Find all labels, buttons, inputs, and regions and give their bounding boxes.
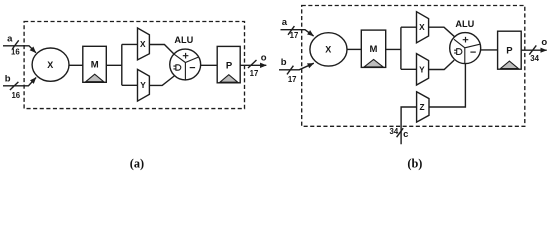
wire X to M (a) xyxy=(69,64,83,66)
pipeline register P (b) xyxy=(498,31,522,69)
ALU circle (a) xyxy=(170,49,201,80)
wire M to mux split (a) xyxy=(106,44,137,85)
pipeline register M (b) xyxy=(361,30,385,67)
svg-text:P: P xyxy=(506,46,513,57)
wire mux X to ALU (a) xyxy=(149,45,174,55)
pipeline register M (a) xyxy=(83,46,107,82)
input b bus-width slash xyxy=(10,82,19,90)
mux Y (b) xyxy=(417,54,429,85)
svg-text:Z: Z xyxy=(419,102,424,112)
ALU plus sign (a) xyxy=(183,53,189,59)
mux Y (a) xyxy=(138,69,150,101)
wire X to M (b) xyxy=(347,48,361,50)
svg-text:(b): (b) xyxy=(407,157,422,171)
multiplier X (b) xyxy=(310,33,347,66)
svg-text:16: 16 xyxy=(11,47,20,56)
ALU divider lines (b) xyxy=(454,39,480,63)
svg-text:a: a xyxy=(282,17,288,28)
svg-text:34: 34 xyxy=(390,127,399,136)
clock triangle P (a) xyxy=(220,75,238,83)
clock triangle M (a) xyxy=(86,74,104,82)
input c bus-width slash (b) xyxy=(397,128,404,137)
output bus-width slash (b) xyxy=(529,45,536,54)
ALU minus sign (b) xyxy=(470,51,475,53)
svg-text:M: M xyxy=(370,44,378,55)
svg-text:ALU: ALU xyxy=(455,19,474,29)
wire mux Y to ALU (b) xyxy=(429,60,455,69)
svg-text:ALU: ALU xyxy=(174,35,193,45)
input a wire (b) xyxy=(281,30,314,36)
wire M to mux split (b) xyxy=(386,27,417,69)
svg-text:P: P xyxy=(226,61,233,72)
svg-text:34: 34 xyxy=(530,54,539,63)
svg-text:(a): (a) xyxy=(130,157,144,171)
wire mux Z to ALU (b) xyxy=(429,64,465,108)
clock triangle P (b) xyxy=(500,61,518,69)
svg-text:Y: Y xyxy=(419,64,425,74)
ALU divider lines (a) xyxy=(174,54,199,80)
svg-text:X: X xyxy=(140,39,146,49)
svg-text:X: X xyxy=(325,45,331,55)
ALU logic-gate icon (b) xyxy=(454,49,462,55)
wire mux X to ALU (b) xyxy=(429,27,455,37)
svg-text:o: o xyxy=(541,37,547,48)
ALU circle (b) xyxy=(450,33,481,64)
svg-text:M: M xyxy=(91,60,99,71)
input a wire xyxy=(3,46,36,53)
dashed boundary box (b) xyxy=(302,6,525,127)
input c wire (b) xyxy=(401,107,417,144)
wire mux Y to ALU (a) xyxy=(149,76,174,85)
svg-text:X: X xyxy=(47,60,53,70)
svg-text:b: b xyxy=(5,73,11,84)
svg-text:X: X xyxy=(419,22,425,32)
ALU plus sign (b) xyxy=(463,37,469,43)
svg-text:17: 17 xyxy=(288,75,297,84)
svg-text:b: b xyxy=(281,57,287,68)
output o wire (b) xyxy=(521,49,547,51)
mux X (b) xyxy=(417,12,429,43)
input b wire (b) xyxy=(279,63,314,70)
ALU minus sign (a) xyxy=(190,67,195,69)
svg-text:16: 16 xyxy=(11,91,20,100)
input a bus-width slash xyxy=(12,40,18,49)
output bus-width slash (a) xyxy=(248,60,257,68)
pipeline register P (a) xyxy=(217,46,240,82)
wire ALU to P (a) xyxy=(201,64,218,66)
svg-text:o: o xyxy=(261,52,267,63)
svg-text:a: a xyxy=(7,33,13,44)
output o wire (a) xyxy=(240,64,266,66)
svg-text:Y: Y xyxy=(140,80,146,90)
wire ALU to P (b) xyxy=(481,49,498,51)
mux X (a) xyxy=(138,28,150,60)
svg-text:c: c xyxy=(403,129,408,140)
multiplier X (a) xyxy=(32,48,69,81)
input b wire xyxy=(3,78,36,86)
svg-text:17: 17 xyxy=(250,69,259,78)
mux Z (b) xyxy=(417,92,429,122)
dashed boundary box (a) xyxy=(24,22,244,109)
ALU logic-gate icon (a) xyxy=(173,65,180,70)
input b bus-width slash (b) xyxy=(287,66,293,75)
svg-text:17: 17 xyxy=(290,31,299,40)
clock triangle M (b) xyxy=(364,59,383,67)
input a bus-width slash (b) xyxy=(288,26,294,35)
